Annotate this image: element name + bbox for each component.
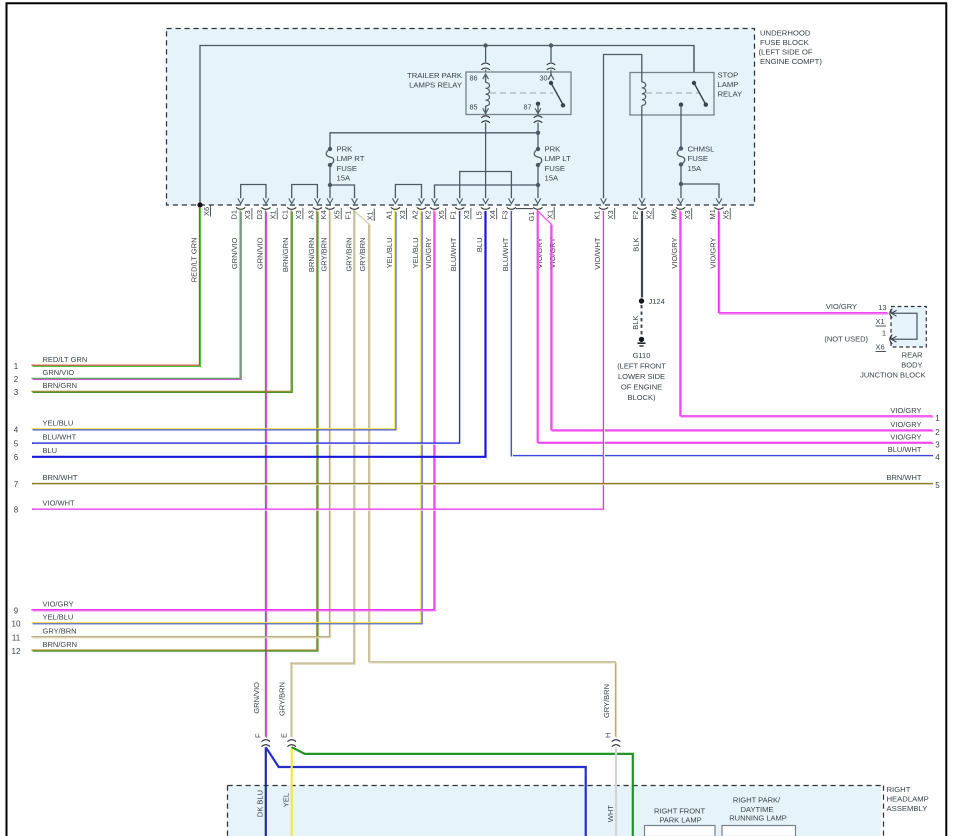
wire: LT fuse to pin G1 xyxy=(537,165,539,198)
svg-text:X1: X1 xyxy=(546,210,555,219)
svg-text:1: 1 xyxy=(882,329,886,338)
svg-text:(LEFT FRONT: (LEFT FRONT xyxy=(617,362,666,371)
fuse CHMSL 15A xyxy=(679,146,683,150)
wire BLU: L5 to left circuit 6 xyxy=(32,211,486,457)
svg-text:OF ENGINE: OF ENGINE xyxy=(621,383,662,392)
wire: bus to stop relay switch xyxy=(693,46,695,84)
svg-text:86: 86 xyxy=(470,74,478,83)
svg-text:GRY/BRN: GRY/BRN xyxy=(602,684,611,718)
wire: splice to PRK LMP RT fuse xyxy=(330,133,538,149)
svg-text:13: 13 xyxy=(878,303,886,312)
svg-text:YEL: YEL xyxy=(282,793,291,807)
svg-text:X6: X6 xyxy=(876,343,885,352)
node: X6 feed junction on border xyxy=(197,202,202,207)
svg-text:GRN/VIO: GRN/VIO xyxy=(252,682,261,714)
wire GRY/BRN: K4 to left circuit 11 xyxy=(31,210,329,636)
svg-text:X4: X4 xyxy=(488,210,497,219)
svg-text:PARK LAMP: PARK LAMP xyxy=(659,816,701,825)
socket: trailer relay pin 85 xyxy=(481,116,490,118)
pin A1/X3 at x=395.4 xyxy=(391,207,400,209)
switch blade: stop relay xyxy=(692,81,696,85)
wire: relay 87 down to splice xyxy=(537,123,539,133)
pin F1 at x=354.5 xyxy=(350,207,359,209)
connector body link F3-G1 xyxy=(516,208,533,210)
pin 1/X6 of rear body junction block (not used) xyxy=(890,335,893,344)
pin K4/X5 at x=330.0 xyxy=(325,207,334,209)
wire BLU/WHT: F3 to right circuit 4 xyxy=(511,211,933,456)
wire: LT fuse splice to pin K2 xyxy=(435,185,539,198)
svg-text:YEL/BLU: YEL/BLU xyxy=(43,612,74,621)
svg-text:BLU/WHT: BLU/WHT xyxy=(449,237,458,271)
wire BRN/GRN: A3 to left circuit 12 xyxy=(31,210,316,650)
svg-text:YEL/BLU: YEL/BLU xyxy=(411,238,420,269)
svg-text:GRY/BRN: GRY/BRN xyxy=(358,238,367,272)
wire GRN/VIO: D3 down to connector F xyxy=(264,210,266,736)
svg-text:VIO/GRY: VIO/GRY xyxy=(890,406,921,415)
svg-text:D1: D1 xyxy=(230,210,239,220)
switch blade: trailer relay xyxy=(549,81,553,85)
svg-text:CHMSL: CHMSL xyxy=(688,145,716,154)
wire YEL/BLU: A1 to left circuit 4 xyxy=(31,210,394,428)
wire VIO/GRY: M1 to rear body junction block xyxy=(718,210,887,312)
pin K2/X5 at x=434.5 xyxy=(430,207,439,209)
wire BLU branch: connector F to right lamp xyxy=(266,747,586,836)
svg-text:GRY/BRN: GRY/BRN xyxy=(278,682,287,716)
pin A2 at x=421.5 xyxy=(417,207,426,209)
svg-text:X1: X1 xyxy=(366,211,375,220)
pin F3 at x=511.4 xyxy=(507,207,516,209)
wire BLU/WHT: F1 to left circuit 5 xyxy=(32,211,460,443)
svg-text:LOWER SIDE: LOWER SIDE xyxy=(618,372,665,381)
wire: 87 splice down to PRK LMP LT fuse xyxy=(537,133,539,149)
wire: CHMSL splice to pin M1 xyxy=(681,184,719,198)
svg-text:VIO/GRY: VIO/GRY xyxy=(424,238,433,269)
socket: trailer relay pin 30 xyxy=(547,63,556,65)
svg-text:BLU/WHT: BLU/WHT xyxy=(888,445,922,454)
svg-text:X6: X6 xyxy=(202,207,211,216)
svg-text:PRK: PRK xyxy=(545,145,562,154)
wire GRN branch: connector E to running lamp xyxy=(292,747,633,836)
wire: RT fuse splice to pin F1 xyxy=(330,185,355,198)
svg-text:8: 8 xyxy=(14,505,19,514)
svg-text:RELAY: RELAY xyxy=(718,90,743,99)
svg-text:F1: F1 xyxy=(449,211,458,220)
svg-text:GRN/VIO: GRN/VIO xyxy=(43,368,75,377)
svg-text:G110: G110 xyxy=(633,351,651,360)
svg-text:FUSE: FUSE xyxy=(688,154,709,163)
svg-text:GRY/BRN: GRY/BRN xyxy=(345,238,354,272)
pin F1/X3 at x=459.7 xyxy=(455,207,464,209)
svg-text:X5: X5 xyxy=(437,210,446,219)
wire BRN/WHT: full width circuit 7/5 xyxy=(32,483,933,485)
wire VIO/GRY: M6 to right circuit 1 xyxy=(680,210,933,415)
wire: relay 85 down to pin L5 xyxy=(485,123,487,199)
page border xyxy=(6,3,8,836)
svg-text:30: 30 xyxy=(540,74,548,83)
underhood fuse block (left side of engine compt) xyxy=(167,29,755,206)
pin F2/X2 at x=642.0 xyxy=(637,207,646,209)
right headlamp assembly block xyxy=(228,786,882,836)
splice bridge A1-A2 xyxy=(395,185,421,199)
svg-text:4: 4 xyxy=(935,453,940,462)
svg-text:RED/LT GRN: RED/LT GRN xyxy=(43,355,88,364)
svg-text:X3: X3 xyxy=(683,210,692,219)
wire GRN/VIO: D1 to left circuit 2 xyxy=(31,210,240,378)
wire VIO/WHT: K1 to left circuit 8 xyxy=(32,211,604,509)
inline connector H xyxy=(612,740,621,742)
svg-text:WHT: WHT xyxy=(606,805,615,822)
svg-text:10: 10 xyxy=(12,619,21,628)
svg-text:REAR: REAR xyxy=(902,351,923,360)
pin C1/X3 at x=291.7 xyxy=(287,207,296,209)
node: bus to trailer relay pin 86 xyxy=(483,43,487,47)
svg-text:11: 11 xyxy=(12,633,21,642)
switch output node pin 87 xyxy=(536,102,540,106)
wire BLK: F2 down to J124 xyxy=(641,211,643,298)
svg-text:H: H xyxy=(604,733,613,738)
svg-text:3: 3 xyxy=(14,388,19,397)
svg-text:VIO/WHT: VIO/WHT xyxy=(43,498,75,507)
svg-text:BLU: BLU xyxy=(475,238,484,253)
svg-text:1: 1 xyxy=(935,414,940,423)
svg-text:BRN/GRN: BRN/GRN xyxy=(281,238,290,273)
pin 87 exit arrow xyxy=(537,104,539,114)
svg-text:STOP: STOP xyxy=(718,71,739,80)
svg-text:BRN/WHT: BRN/WHT xyxy=(43,473,78,482)
svg-text:BLK: BLK xyxy=(632,238,641,252)
wire YEL: connector E into headlamp block xyxy=(291,747,293,836)
socket: trailer relay pin 87 xyxy=(534,116,543,118)
pin M6/X3 at x=680.5 xyxy=(676,207,685,209)
svg-text:D3: D3 xyxy=(255,210,264,220)
svg-text:15A: 15A xyxy=(545,174,560,183)
wire VIO/GRY: K2 to left circuit 9 xyxy=(31,210,434,609)
svg-text:12: 12 xyxy=(12,647,21,656)
svg-text:GRN/VIO: GRN/VIO xyxy=(230,237,239,269)
svg-text:X3: X3 xyxy=(606,210,615,219)
svg-text:BRN/GRN: BRN/GRN xyxy=(307,238,316,273)
wire GRY/BRN: F1 branch to connector H xyxy=(354,210,615,736)
svg-text:HEADLAMP: HEADLAMP xyxy=(887,795,929,804)
svg-text:7: 7 xyxy=(14,480,19,489)
svg-text:BLU/WHT: BLU/WHT xyxy=(43,432,77,441)
ground G110 symbol xyxy=(639,337,644,342)
svg-text:F2: F2 xyxy=(631,211,640,220)
svg-text:3: 3 xyxy=(935,440,940,449)
wire: stop coil to pin F2 xyxy=(641,106,643,199)
junction J124 xyxy=(639,298,644,303)
pin K1/X3 at x=603.5 xyxy=(599,207,608,209)
svg-text:BRN/GRN: BRN/GRN xyxy=(43,381,78,390)
coil: trailer relay xyxy=(486,83,490,107)
svg-text:F: F xyxy=(254,733,263,738)
svg-text:6: 6 xyxy=(14,453,19,462)
svg-text:JUNCTION BLOCK: JUNCTION BLOCK xyxy=(860,371,925,380)
svg-text:VIO/GRY: VIO/GRY xyxy=(709,238,718,269)
svg-text:A2: A2 xyxy=(411,210,420,219)
socket: trailer relay pin 86 xyxy=(481,63,490,65)
svg-text:9: 9 xyxy=(14,606,19,615)
svg-text:LMP LT: LMP LT xyxy=(545,154,572,163)
pin D3/X1 at x=266.0 xyxy=(261,207,270,209)
svg-text:VIO/GRY: VIO/GRY xyxy=(43,599,74,608)
svg-text:(LEFT SIDE OF: (LEFT SIDE OF xyxy=(759,48,813,57)
svg-text:X1: X1 xyxy=(269,210,278,219)
svg-text:2: 2 xyxy=(935,428,940,437)
svg-text:87: 87 xyxy=(524,103,532,112)
svg-text:F1: F1 xyxy=(344,211,353,220)
fuse PRK LMP LT 15A xyxy=(536,147,540,151)
svg-text:RIGHT PARK/: RIGHT PARK/ xyxy=(733,796,781,805)
svg-text:VIO/GRY: VIO/GRY xyxy=(890,420,921,429)
pin 85 exit arrow xyxy=(485,106,487,114)
svg-text:FUSE BLOCK: FUSE BLOCK xyxy=(760,38,810,47)
relay box: trailer park lamps relay xyxy=(466,72,571,115)
wire: socket to relay box pin 30 xyxy=(550,70,552,72)
svg-text:C1: C1 xyxy=(281,210,290,220)
svg-text:A3: A3 xyxy=(306,210,315,219)
node: LT fuse output splice xyxy=(536,183,540,187)
wire: junction block internal loop 13 to 1 xyxy=(891,313,917,339)
svg-text:1: 1 xyxy=(14,362,19,371)
svg-text:K1: K1 xyxy=(593,210,602,219)
node: 87 output splice xyxy=(536,131,540,135)
wire: RT fuse to pin K4 xyxy=(329,165,331,198)
wire: CHMSL fuse to pin M6 xyxy=(680,165,682,199)
wire GRY/BRN: F1 to connector E xyxy=(291,210,354,736)
svg-text:ASSEMBLY: ASSEMBLY xyxy=(887,804,928,813)
svg-text:RIGHT: RIGHT xyxy=(887,785,911,794)
pin 13/X1 of rear body junction block xyxy=(890,309,893,318)
svg-text:M1: M1 xyxy=(708,209,717,219)
coil: stop lamp relay xyxy=(642,82,646,106)
svg-text:4: 4 xyxy=(14,426,19,435)
wire: socket to relay box pin 86 xyxy=(485,70,487,72)
wire: bus drop to trailer relay pin 30 xyxy=(550,46,552,63)
svg-text:ENGINE COMPT): ENGINE COMPT) xyxy=(760,57,822,66)
svg-text:X3: X3 xyxy=(398,210,407,219)
dashed actuator link: trailer relay xyxy=(490,92,553,94)
wire VIO/GRY: G1 to right circuit 3 xyxy=(537,210,932,442)
svg-text:G1: G1 xyxy=(527,211,536,221)
svg-text:VIO/GRY: VIO/GRY xyxy=(890,432,921,441)
switch output node: stop relay xyxy=(679,103,683,107)
wire: bus drop to trailer relay pin 86 xyxy=(485,46,487,63)
svg-text:M6: M6 xyxy=(670,209,679,219)
pin at x=537.8 xyxy=(533,207,542,209)
svg-text:BLK: BLK xyxy=(631,316,640,330)
wire DK BLU: connector F into headlamp block xyxy=(265,747,267,836)
svg-text:RIGHT FRONT: RIGHT FRONT xyxy=(654,807,706,816)
wire: stop switch output to CHMSL fuse xyxy=(680,105,682,149)
svg-text:FUSE: FUSE xyxy=(337,164,358,173)
svg-text:BLU: BLU xyxy=(43,446,58,455)
wire BLK dashed: J124 to G110 xyxy=(641,305,643,337)
splice bridge C1-A3 xyxy=(292,185,318,199)
svg-text:5: 5 xyxy=(935,481,940,490)
svg-text:YEL/BLU: YEL/BLU xyxy=(385,238,394,269)
svg-text:GRN/VIO: GRN/VIO xyxy=(256,237,265,269)
svg-text:A1: A1 xyxy=(384,210,393,219)
svg-text:GRY/BRN: GRY/BRN xyxy=(320,238,329,272)
pin A3 at x=317.4 xyxy=(313,207,322,209)
pin D1/X3 at x=240.7 xyxy=(236,207,245,209)
svg-text:K4: K4 xyxy=(319,210,328,219)
svg-text:E: E xyxy=(279,733,288,738)
svg-text:X3: X3 xyxy=(462,210,471,219)
wire YEL/BLU: A2 to left circuit 10 xyxy=(31,210,421,622)
svg-text:K2: K2 xyxy=(424,210,433,219)
svg-text:RUNNING LAMP: RUNNING LAMP xyxy=(729,814,787,823)
svg-text:YEL/BLU: YEL/BLU xyxy=(43,419,74,428)
svg-text:BRN/GRN: BRN/GRN xyxy=(43,640,78,649)
pin 30 stub xyxy=(550,72,552,76)
svg-text:X3: X3 xyxy=(294,210,303,219)
svg-text:BLU/WHT: BLU/WHT xyxy=(501,237,510,271)
svg-text:VIO/GRY: VIO/GRY xyxy=(826,302,857,311)
fuse PRK LMP RT 15A xyxy=(328,147,332,151)
inline connector E xyxy=(287,740,296,742)
svg-text:15A: 15A xyxy=(337,174,352,183)
svg-text:85: 85 xyxy=(470,103,478,112)
pin L5/X4 at x=485.5 xyxy=(481,207,490,209)
wire WHT: connector H into headlamp block xyxy=(615,747,617,836)
svg-text:BODY: BODY xyxy=(901,361,922,370)
svg-text:LAMP: LAMP xyxy=(718,80,739,89)
svg-text:VIO/WHT: VIO/WHT xyxy=(593,237,602,269)
svg-text:BLOCK): BLOCK) xyxy=(628,393,656,402)
svg-text:FUSE: FUSE xyxy=(545,164,566,173)
wire: pin K1 up to stop relay coil xyxy=(604,55,642,199)
svg-text:LMP RT: LMP RT xyxy=(337,154,365,163)
svg-text:X1: X1 xyxy=(876,317,885,326)
svg-text:15A: 15A xyxy=(688,164,703,173)
svg-text:L5: L5 xyxy=(475,211,484,219)
svg-text:X5: X5 xyxy=(333,210,342,219)
relay box: stop lamp relay xyxy=(630,73,714,116)
pin M1/X5 at x=719.0 xyxy=(714,207,723,209)
svg-text:VIO/GRY: VIO/GRY xyxy=(670,238,679,269)
svg-text:(NOT USED): (NOT USED) xyxy=(824,335,868,344)
svg-text:2: 2 xyxy=(14,375,19,384)
svg-text:LAMPS RELAY: LAMPS RELAY xyxy=(409,81,462,90)
svg-text:GRY/BRN: GRY/BRN xyxy=(43,626,77,635)
wire RED/LT GRN: X6 to left circuit 1 xyxy=(31,207,199,365)
rear body junction block xyxy=(891,307,926,348)
dashed actuator link: stop relay xyxy=(646,92,699,94)
node: CHMSL output splice xyxy=(679,182,683,186)
svg-text:TRAILER PARK: TRAILER PARK xyxy=(407,71,463,80)
wire VIO/GRY: G1 branch to right circuit 2 xyxy=(537,210,932,430)
inline connector F xyxy=(262,740,271,742)
splice bridge D1-D3 xyxy=(241,185,266,199)
node: bus to trailer relay pin 30 xyxy=(549,43,553,47)
splice bridge F1-F3 xyxy=(460,172,512,199)
svg-text:X5: X5 xyxy=(722,210,731,219)
wire BRN/GRN: C1 to left circuit 3 xyxy=(31,210,291,391)
svg-text:PRK: PRK xyxy=(337,145,354,154)
svg-text:DK BLU: DK BLU xyxy=(256,790,265,817)
pin 86 entry arrow xyxy=(485,74,487,83)
svg-text:VIO/GRY: VIO/GRY xyxy=(535,238,544,269)
svg-text:BRN/WHT: BRN/WHT xyxy=(887,473,922,482)
wire: battery feed bus (X6 to relays) xyxy=(200,46,694,206)
svg-text:X2: X2 xyxy=(645,210,654,219)
svg-text:5: 5 xyxy=(14,439,19,448)
svg-text:UNDERHOOD: UNDERHOOD xyxy=(760,29,811,38)
svg-text:J124: J124 xyxy=(649,297,665,306)
svg-text:X3: X3 xyxy=(243,210,252,219)
svg-text:F3: F3 xyxy=(500,211,509,220)
node: RT fuse output splice xyxy=(328,183,332,187)
svg-text:RED/LT GRN: RED/LT GRN xyxy=(190,238,199,283)
